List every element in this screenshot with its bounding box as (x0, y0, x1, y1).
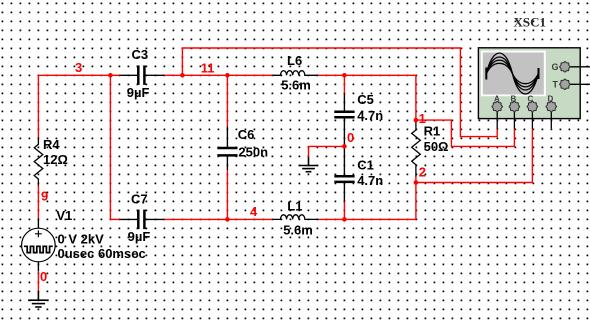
wire node0: V1 minus to ground (37, 271, 39, 291)
svg-text:5.6m: 5.6m (283, 222, 313, 237)
svg-text:C3: C3 (132, 47, 149, 62)
scope pin B (513, 112, 515, 129)
scope pin A (496, 112, 498, 129)
inductor L1 (273, 215, 319, 220)
svg-text:3: 3 (75, 60, 82, 75)
svg-text:C1: C1 (357, 158, 374, 173)
wire node4: bottom rail L1 right (319, 218, 416, 220)
scope knob B (509, 101, 520, 112)
scope knob D (546, 101, 557, 112)
junction C6 bottom rail (225, 217, 230, 222)
wire node2: down to bottom rail (415, 183, 417, 220)
svg-text:4.7n: 4.7n (357, 173, 383, 188)
wire node2: R1 bottom stub (415, 177, 417, 183)
svg-text:0: 0 (40, 269, 47, 284)
junction node 0 mid (342, 144, 347, 149)
svg-text:0usec 60msec: 0usec 60msec (58, 246, 146, 261)
wire node3: branch down to C7 and left end of bottom rail (110, 75, 119, 219)
svg-text:1: 1 (419, 111, 426, 126)
wire node1: C5 top stub (343, 75, 345, 93)
svg-text:R4: R4 (43, 137, 60, 152)
wire node2: to scope input C (416, 129, 533, 183)
wire node11: bypass up and over to scope input A (182, 48, 497, 137)
junction C1 bottom rail (342, 217, 347, 222)
svg-text:R1: R1 (424, 123, 441, 138)
svg-text:4.7n: 4.7n (357, 108, 383, 123)
svg-text:T: T (553, 80, 559, 90)
svg-text:11: 11 (201, 60, 215, 75)
wire node4: C6 bottom to bottom rail (226, 170, 228, 219)
svg-text:G: G (552, 62, 559, 72)
junction at C3 left / node 3 (108, 73, 113, 78)
oscilloscope XSC1 body (478, 48, 580, 119)
scope pin C (531, 112, 533, 129)
svg-text:5.6m: 5.6m (281, 78, 311, 93)
wire node1: L6 right to R1 top (318, 75, 416, 120)
capacitor C1 (334, 146, 354, 201)
svg-text:L6: L6 (287, 53, 302, 68)
resistor R1 (412, 120, 421, 176)
svg-text:9: 9 (41, 189, 48, 204)
wire node3: R4 top to C3 left (38, 75, 119, 137)
junction at C5 top (342, 73, 347, 78)
junction at node 11 bypass (180, 73, 185, 78)
svg-text:C5: C5 (357, 92, 374, 107)
capacitor C5 (334, 93, 354, 146)
junction node 1 (414, 118, 419, 123)
scope pin T (570, 83, 590, 85)
wire node0: junction to ground branch (309, 146, 345, 157)
scope knob C (527, 101, 538, 112)
capacitor C7 (120, 210, 164, 230)
svg-text:0 V 2kV: 0 V 2kV (58, 231, 105, 246)
scope knob A (492, 101, 503, 112)
scope knob G (560, 62, 571, 73)
svg-text:0: 0 (347, 130, 354, 145)
wire node4: C1 bottom to bottom rail (343, 201, 345, 219)
scope pin G (570, 66, 590, 68)
svg-text:2: 2 (419, 165, 426, 180)
scope knob T (560, 79, 571, 90)
capacitor C3 (120, 65, 165, 85)
wire node11: branch down to C6 top (226, 75, 228, 126)
ground (bottom left) (28, 291, 49, 307)
junction at C6 top (225, 73, 230, 78)
scope pin D (550, 112, 552, 129)
resistor R4 (34, 137, 43, 185)
svg-text:L1: L1 (287, 198, 302, 213)
svg-text:12Ω: 12Ω (43, 152, 68, 167)
svg-text:XSC1: XSC1 (514, 15, 547, 30)
inductor L6 (273, 71, 318, 76)
source V1 (22, 218, 56, 271)
svg-text:250n: 250n (238, 145, 268, 160)
svg-text:C7: C7 (131, 191, 148, 206)
svg-text:9µF: 9µF (127, 85, 150, 100)
junction node 2 (414, 180, 419, 185)
svg-text:50Ω: 50Ω (424, 139, 449, 154)
ground (middle, node 0) (299, 157, 318, 172)
svg-text:4: 4 (250, 204, 258, 219)
capacitor C6 (217, 126, 237, 170)
wire node4: bottom rail C7 to L1 (164, 218, 273, 220)
wire node1: R1 top to scope input B (416, 120, 515, 146)
wire node9: R4 bottom to V1 plus (37, 186, 39, 219)
svg-text:C6: C6 (238, 127, 255, 142)
svg-text:9µF: 9µF (128, 229, 151, 244)
wire node11: C3 right to L6 left (164, 74, 272, 76)
svg-text:V1: V1 (56, 208, 72, 223)
